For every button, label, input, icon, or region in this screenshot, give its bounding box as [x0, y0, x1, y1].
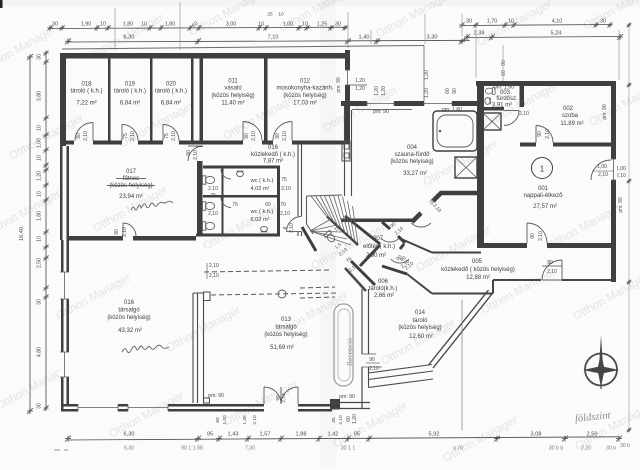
svg-text:1,20: 1,20: [222, 415, 228, 425]
svg-text:6,30: 6,30: [124, 432, 135, 438]
svg-text:2,10: 2,10: [209, 273, 219, 279]
bottom wall with windows: [61, 404, 78, 407]
svg-text:1,20: 1,20: [424, 88, 430, 98]
svg-text:51,69 m²: 51,69 m²: [270, 345, 294, 351]
svg-text:a 70: a 70: [453, 446, 463, 452]
svg-text:szauna-fürdő: szauna-fürdő: [394, 152, 430, 158]
svg-text:1,40: 1,40: [359, 35, 370, 41]
svg-text:95: 95: [207, 432, 213, 438]
svg-text:25: 25: [267, 12, 273, 18]
svg-text:2,10: 2,10: [281, 393, 287, 403]
svg-text:95: 95: [354, 432, 360, 438]
svg-text:2,90 m²: 2,90 m²: [366, 253, 386, 259]
svg-text:Recepció: Recepció: [345, 338, 354, 366]
outer walls upper-left: [60, 53, 348, 59]
svg-text:pm: 90: pm: 90: [373, 109, 389, 115]
svg-text:előtér ( k.h.): előtér ( k.h.): [363, 244, 395, 250]
svg-text:6,30: 6,30: [124, 35, 135, 41]
svg-text:szoba: szoba: [562, 113, 579, 119]
corridor 005 walls: [432, 293, 493, 295]
svg-text:2,10: 2,10: [369, 366, 379, 372]
svg-text:17,03 m²: 17,03 m²: [293, 101, 317, 107]
svg-text:1,88: 1,88: [296, 432, 307, 438]
room 014 walls and walkway: [361, 289, 363, 354]
svg-text:2,66 m²: 2,66 m²: [374, 293, 394, 299]
svg-text:pm: 90: pm: 90: [208, 393, 224, 399]
top dimension rows: [50, 27, 347, 28]
svg-text:3,91 m²: 3,91 m²: [492, 103, 512, 109]
svg-text:2,10: 2,10: [616, 173, 626, 179]
svg-text:7,30: 7,30: [245, 446, 255, 452]
svg-text:2,10: 2,10: [547, 269, 557, 275]
svg-text:közlekedő ( k.h.): közlekedő ( k.h.): [251, 152, 295, 158]
svg-text:6,02 m²: 6,02 m²: [251, 217, 270, 223]
svg-text:10: 10: [37, 236, 43, 242]
svg-text:tároló(k.h.): tároló(k.h.): [369, 286, 398, 292]
interior walls room row 1: [108, 58, 111, 141]
understair wc: [324, 230, 337, 243]
svg-text:75: 75: [164, 133, 170, 139]
svg-text:2,10: 2,10: [252, 415, 258, 425]
corridor-stair wall: [297, 144, 299, 216]
svg-text:30: 30: [37, 54, 43, 60]
svg-text:43,32 m²: 43,32 m²: [118, 328, 142, 334]
svg-text:30: 30: [466, 18, 472, 24]
corner mark: [0, 0, 3, 8]
svg-text:4,10: 4,10: [552, 18, 563, 24]
svg-text:90: 90: [369, 357, 375, 363]
entry diagonal walls: [360, 245, 380, 266]
right section walls: [476, 81, 616, 86]
svg-text:1,00: 1,00: [597, 164, 607, 170]
svg-text:pm: 90: pm: 90: [602, 104, 608, 120]
svg-text:2,50: 2,50: [37, 258, 43, 268]
svg-text:társalgó: társalgó: [275, 324, 297, 330]
svg-text:tároló ( k.h.): tároló ( k.h.): [155, 89, 187, 95]
svg-text:90: 90: [186, 150, 192, 156]
reception desk: [334, 304, 353, 386]
svg-text:10: 10: [141, 21, 147, 27]
svg-text:014: 014: [415, 310, 426, 316]
svg-text:tároló ( k.h.): tároló ( k.h.): [70, 89, 102, 95]
svg-text:1,20: 1,20: [352, 414, 358, 424]
svg-text:tároló: tároló: [412, 318, 428, 324]
svg-text:(közös helyiség): (közös helyiség): [390, 159, 433, 165]
svg-text:006: 006: [378, 279, 389, 285]
svg-text:4,02 m²: 4,02 m²: [251, 186, 270, 192]
svg-text:75: 75: [210, 192, 216, 198]
svg-text:1,80: 1,80: [37, 211, 43, 221]
svg-text:002: 002: [563, 106, 574, 112]
svg-text:1,90: 1,90: [81, 21, 92, 27]
svg-text:2,10: 2,10: [208, 186, 218, 192]
svg-text:10: 10: [302, 21, 308, 27]
svg-text:(közös helyiség): (közös helyiség): [264, 332, 307, 338]
svg-text:wc ( k.h.): wc ( k.h.): [250, 178, 274, 184]
svg-text:7,10: 7,10: [268, 35, 279, 41]
svg-text:1,70: 1,70: [487, 18, 498, 24]
door arcs room row 1: [75, 123, 93, 141]
svg-text:2,10: 2,10: [281, 186, 291, 192]
svg-text:1,43: 1,43: [228, 432, 239, 438]
svg-text:2,10: 2,10: [208, 211, 218, 217]
svg-text:1,35: 1,35: [242, 415, 248, 425]
svg-text:2,10: 2,10: [545, 129, 551, 139]
svg-text:30 1 1: 30 1 1: [341, 446, 356, 452]
svg-text:90: 90: [275, 395, 281, 401]
svg-text:12,60 m²: 12,60 m²: [409, 334, 433, 340]
room 017 walls and door: [197, 146, 203, 234]
svg-text:018: 018: [81, 82, 92, 88]
svg-text:10: 10: [258, 21, 264, 27]
svg-text:wc ( k.h.): wc ( k.h.): [250, 209, 274, 215]
svg-text:társalgó: társalgó: [118, 307, 140, 313]
svg-text:nappali-étkező: nappali-étkező: [523, 193, 563, 199]
bathtub: [433, 111, 477, 151]
svg-text:004: 004: [407, 145, 418, 151]
svg-text:6,84 m²: 6,84 m²: [120, 101, 140, 107]
svg-text:10: 10: [37, 155, 43, 161]
svg-text:90: 90: [537, 131, 543, 137]
signature handwriting 017: [131, 201, 173, 210]
svg-text:3,08: 3,08: [531, 432, 542, 438]
right dimension line: [628, 25, 630, 430]
svg-text:1,20: 1,20: [381, 86, 387, 96]
svg-text:90: 90: [114, 229, 120, 235]
svg-text:013: 013: [281, 317, 292, 323]
svg-text:75: 75: [123, 133, 129, 139]
svg-text:75: 75: [232, 202, 238, 208]
svg-text:70: 70: [280, 202, 286, 208]
svg-text:(közös helyiség): (közös helyiség): [398, 325, 441, 331]
svg-text:1,20: 1,20: [355, 78, 365, 84]
svg-text:90 1 1 88: 90 1 1 88: [181, 446, 203, 452]
svg-text:10: 10: [37, 191, 43, 197]
svg-text:2,10: 2,10: [83, 131, 89, 141]
svg-text:2,38: 2,38: [474, 30, 485, 36]
shower square: [455, 157, 477, 178]
svg-text:005: 005: [472, 259, 483, 265]
svg-text:12,88 m²: 12,88 m²: [466, 275, 490, 281]
svg-text:2,10: 2,10: [251, 131, 257, 141]
svg-text:pm: 1,60: pm: 1,60: [442, 107, 462, 113]
svg-text:1,80: 1,80: [123, 21, 134, 27]
svg-text:10: 10: [37, 125, 43, 131]
svg-text:2,10: 2,10: [193, 150, 199, 160]
svg-text:2,50: 2,50: [587, 432, 598, 438]
svg-text:90: 90: [244, 133, 250, 139]
szauna walls: [344, 105, 346, 196]
svg-text:tároló ( k.h.): tároló ( k.h.): [114, 89, 146, 95]
svg-text:016: 016: [268, 145, 279, 151]
svg-text:2,10: 2,10: [280, 211, 290, 217]
svg-text:közlekedő ( közös helyiség): közlekedő ( közös helyiség): [441, 267, 515, 273]
svg-text:7,22 m²: 7,22 m²: [76, 101, 96, 107]
svg-text:30 b b: 30 b b: [549, 446, 564, 452]
entrance double door: [264, 387, 281, 404]
svg-text:60: 60: [265, 202, 271, 208]
wall 016-013: [192, 293, 194, 403]
svg-text:2,10: 2,10: [122, 227, 128, 237]
svg-text:3,80: 3,80: [37, 91, 43, 101]
svg-text:75: 75: [281, 177, 287, 183]
svg-text:1: 1: [540, 164, 545, 174]
svg-text:80: 80: [547, 260, 553, 266]
svg-text:60: 60: [501, 70, 507, 76]
svg-text:pm: 90: pm: 90: [618, 197, 624, 213]
svg-text:10: 10: [508, 18, 514, 24]
svg-text:1,20: 1,20: [37, 171, 43, 181]
svg-text:90: 90: [452, 88, 458, 94]
svg-text:001: 001: [538, 186, 549, 192]
svg-text:vasaló: vasaló: [224, 86, 242, 92]
svg-text:2,10: 2,10: [282, 131, 288, 141]
svg-text:2,20: 2,20: [581, 446, 591, 452]
svg-text:10: 10: [278, 12, 284, 18]
svg-text:4,80: 4,80: [37, 347, 43, 357]
svg-text:020: 020: [166, 82, 177, 88]
dashed lines 013: [204, 270, 330, 272]
signature handwriting 016: [122, 345, 169, 353]
svg-text:fürdősz.: fürdősz.: [496, 96, 518, 102]
svg-text:30: 30: [37, 299, 43, 305]
svg-text:1,20: 1,20: [355, 86, 365, 92]
svg-text:012: 012: [300, 79, 311, 85]
svg-text:7,87 m²: 7,87 m²: [263, 159, 283, 165]
stairs: [307, 195, 343, 196]
svg-text:011: 011: [228, 79, 238, 85]
svg-text:27,57 m²: 27,57 m²: [533, 204, 557, 210]
svg-text:60: 60: [445, 88, 451, 94]
svg-text:2,10: 2,10: [538, 231, 544, 241]
room 001 labels: [532, 158, 553, 179]
svg-text:017: 017: [126, 169, 137, 175]
svg-text:016: 016: [124, 300, 135, 306]
svg-text:90: 90: [501, 60, 507, 66]
svg-text:30 b: 30 b: [606, 446, 616, 452]
svg-text:30: 30: [600, 18, 606, 24]
svg-text:11,40 m²: 11,40 m²: [221, 101, 244, 107]
scan fold shading: [320, 0, 336, 465]
svg-text:1,20: 1,20: [374, 86, 380, 96]
svg-text:5,92: 5,92: [429, 432, 440, 438]
svg-text:6,84 m²: 6,84 m²: [161, 101, 181, 107]
svg-text:1,00: 1,00: [283, 21, 294, 27]
svg-text:fűtnec: fűtnec: [123, 176, 139, 182]
svg-text:3,30: 3,30: [427, 35, 438, 41]
svg-text:(közös helyiség): (közös helyiség): [211, 93, 254, 99]
svg-text:10: 10: [100, 21, 106, 27]
svg-text:2,10: 2,10: [171, 131, 177, 141]
svg-text:2,10: 2,10: [519, 111, 529, 117]
left dimension column: [29, 57, 31, 411]
svg-text:pm: 90: pm: 90: [336, 77, 342, 93]
svg-text:6,30: 6,30: [124, 446, 134, 452]
eaves line: [62, 46, 424, 50]
svg-text:1,00: 1,00: [616, 166, 626, 172]
svg-text:(közös helyiség): (közös helyiség): [107, 315, 150, 321]
svg-text:007: 007: [373, 236, 384, 242]
svg-text:23,94 m²: 23,94 m²: [119, 194, 143, 200]
compass rose: [585, 354, 617, 386]
svg-text:1,20: 1,20: [424, 70, 430, 80]
svg-text:1,57: 1,57: [260, 432, 271, 438]
svg-text:2,10: 2,10: [338, 415, 344, 425]
svg-text:60: 60: [215, 417, 221, 423]
svg-text:90: 90: [76, 133, 82, 139]
svg-text:33,27 m²: 33,27 m²: [403, 171, 427, 177]
svg-text:30 b: 30 b: [620, 443, 630, 449]
svg-text:1,00: 1,00: [37, 138, 43, 148]
svg-text:90: 90: [530, 233, 536, 239]
svg-text:30: 30: [37, 403, 43, 409]
section line: [461, 300, 463, 430]
svg-text:2,10: 2,10: [209, 263, 219, 269]
svg-text:pm: 90: pm: 90: [339, 394, 355, 400]
svg-text:75: 75: [519, 101, 525, 107]
bottom dimension rows: [68, 437, 619, 440]
svg-text:019: 019: [125, 82, 136, 88]
svg-text:11,89 m²: 11,89 m²: [560, 121, 583, 127]
svg-text:5,24: 5,24: [551, 30, 562, 36]
svg-text:16,40: 16,40: [19, 227, 25, 241]
wc block walls and fixtures: [203, 166, 280, 169]
svg-text:2,10: 2,10: [130, 131, 136, 141]
svg-text:1,80: 1,80: [165, 21, 176, 27]
svg-text:2,10: 2,10: [598, 172, 608, 178]
svg-text:90: 90: [275, 133, 281, 139]
svg-text:(közös helyiség): (közös helyiség): [109, 183, 152, 189]
svg-text:30: 30: [52, 21, 58, 27]
shower square 2: [483, 113, 501, 130]
svg-text:3,00: 3,00: [226, 21, 237, 27]
